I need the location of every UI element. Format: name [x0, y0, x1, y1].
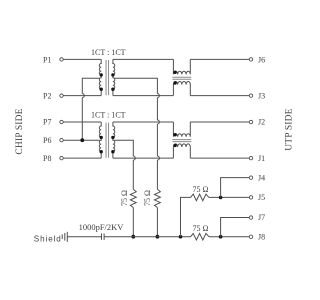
T2 polarity dot secondary lower — [111, 150, 114, 153]
wire P7 to T2 primary top — [63, 121, 101, 123]
junction R1 rail — [131, 235, 135, 239]
transformer T2 primary winding — [99, 122, 101, 158]
choke L2 core — [172, 139, 191, 141]
wire R4 to J8 — [209, 236, 250, 238]
wire R2 bottom to shield rail — [156, 208, 158, 237]
wire branch up to J4 — [221, 178, 250, 198]
wire hop of tap wire over P2 line — [82, 94, 84, 98]
svg-text:75 Ω: 75 Ω — [193, 224, 209, 233]
wire capacitor to shield rail — [104, 236, 191, 238]
terminal P8 — [60, 156, 63, 159]
T1 polarity dot secondary upper — [111, 73, 114, 76]
svg-text:1CT : 1CT: 1CT : 1CT — [91, 48, 126, 57]
T2 polarity dot primary upper — [100, 136, 103, 139]
terminal P7 — [60, 120, 63, 123]
transformer T2 secondary winding — [113, 122, 115, 158]
wire rail branch up to R3 — [181, 197, 191, 236]
wire T2 secondary bottom to choke L2 — [113, 157, 173, 159]
choke L1 polarity dot top — [173, 71, 176, 74]
hop R2 column over J1 line — [157, 156, 159, 160]
shield terminal bars — [61, 235, 63, 240]
svg-text:J4: J4 — [258, 173, 265, 182]
terminal J6 — [249, 58, 252, 61]
wire choke L1 to J3 — [190, 95, 249, 97]
svg-text:J7: J7 — [258, 213, 265, 222]
wire choke L1 to J6 — [190, 58, 249, 60]
terminal J3 — [249, 94, 252, 97]
svg-text:75 Ω: 75 Ω — [193, 185, 209, 194]
T1 polarity dot primary lower — [100, 88, 103, 91]
choke L2 bottom winding — [173, 144, 190, 158]
junction R3 J4 branch — [219, 196, 223, 200]
svg-text:J3: J3 — [258, 91, 265, 100]
hop R1 column over J1 line — [133, 156, 135, 160]
wire P6 to T2 primary center tap — [63, 139, 100, 141]
wire shield to capacitor C1 — [67, 236, 101, 238]
svg-text:P1: P1 — [43, 55, 51, 64]
wire T1 primary center tap — [82, 78, 100, 140]
wire T2 secondary top to choke L2 — [113, 121, 173, 123]
svg-text:J6: J6 — [258, 55, 265, 64]
terminal J4 — [249, 176, 252, 179]
terminal J5 — [249, 196, 252, 199]
wire T1 secondary top to choke L1 — [113, 58, 173, 60]
terminal J7 — [249, 216, 252, 219]
junction rail to R3 branch — [179, 235, 183, 239]
svg-text:J2: J2 — [258, 118, 265, 127]
wire T2 secondary center tap to R1 column — [114, 140, 133, 189]
svg-text:P6: P6 — [43, 136, 51, 145]
resistor R1 75 ohm vertical — [130, 189, 136, 207]
wire T1 secondary bottom to choke L1 — [113, 95, 173, 97]
wire P2 to T1 primary bottom — [63, 95, 101, 97]
T2 polarity dot secondary upper — [111, 136, 114, 139]
svg-text:Shield: Shield — [34, 234, 62, 243]
choke L1 polarity dot bottom — [173, 81, 176, 84]
resistor R4 75 ohm horizontal — [191, 233, 209, 240]
choke L2 polarity dot top — [173, 133, 176, 136]
terminal P6 — [60, 138, 63, 141]
svg-text:P8: P8 — [43, 154, 51, 163]
resistor R2 75 ohm vertical — [154, 189, 160, 207]
wire choke L2 to J2 — [190, 121, 249, 123]
svg-text:UTP SIDE: UTP SIDE — [285, 108, 295, 150]
transformer T1 primary winding — [99, 59, 101, 95]
terminal J1 — [249, 156, 252, 159]
svg-text:J5: J5 — [258, 193, 265, 202]
capacitor C1 1000pF/2KV — [101, 234, 103, 240]
choke L1 core — [172, 76, 191, 78]
svg-text:J8: J8 — [258, 232, 265, 241]
T1 polarity dot secondary lower — [111, 88, 114, 91]
terminal P2 — [60, 94, 63, 97]
wire P1 to T1 primary top — [63, 58, 101, 60]
transformer T1 core — [105, 60, 107, 95]
resistor R3 75 ohm horizontal — [191, 194, 209, 201]
wire choke L2 to J1 — [190, 157, 249, 159]
wire branch up to J7 — [221, 218, 250, 237]
transformer T1 secondary winding — [113, 59, 115, 95]
wire T1 secondary center tap to R2 column — [114, 78, 157, 189]
junction P6 center tap — [80, 138, 84, 142]
terminal J8 — [249, 235, 252, 238]
hop R2 column over J3 line — [157, 94, 159, 98]
T2 polarity dot primary lower — [100, 150, 103, 153]
svg-text:75 Ω: 75 Ω — [120, 190, 129, 206]
wire P8 to T2 primary bottom — [63, 157, 101, 159]
hop R2 column over J2 line — [157, 120, 159, 124]
choke L2 polarity dot bottom — [173, 144, 176, 147]
svg-text:CHIP SIDE: CHIP SIDE — [15, 108, 25, 154]
svg-text:P2: P2 — [43, 91, 51, 100]
svg-text:J1: J1 — [258, 154, 265, 163]
choke L2 top winding — [173, 122, 190, 137]
wire R1 bottom to shield rail — [132, 208, 134, 237]
T1 polarity dot primary upper — [100, 73, 103, 76]
wire R3 to J5 — [209, 196, 250, 198]
junction R2 rail — [156, 235, 160, 239]
transformer T2 core — [105, 123, 107, 158]
choke L1 top winding — [173, 59, 190, 74]
choke L1 bottom winding — [173, 81, 190, 95]
svg-text:75 Ω: 75 Ω — [143, 190, 152, 206]
svg-text:P7: P7 — [43, 118, 51, 127]
terminal P1 — [60, 58, 63, 61]
svg-text:1CT : 1CT: 1CT : 1CT — [91, 110, 126, 119]
junction R4 J7 branch — [219, 235, 223, 239]
terminal J2 — [249, 120, 252, 123]
svg-text:1000pF/2KV: 1000pF/2KV — [79, 222, 125, 232]
